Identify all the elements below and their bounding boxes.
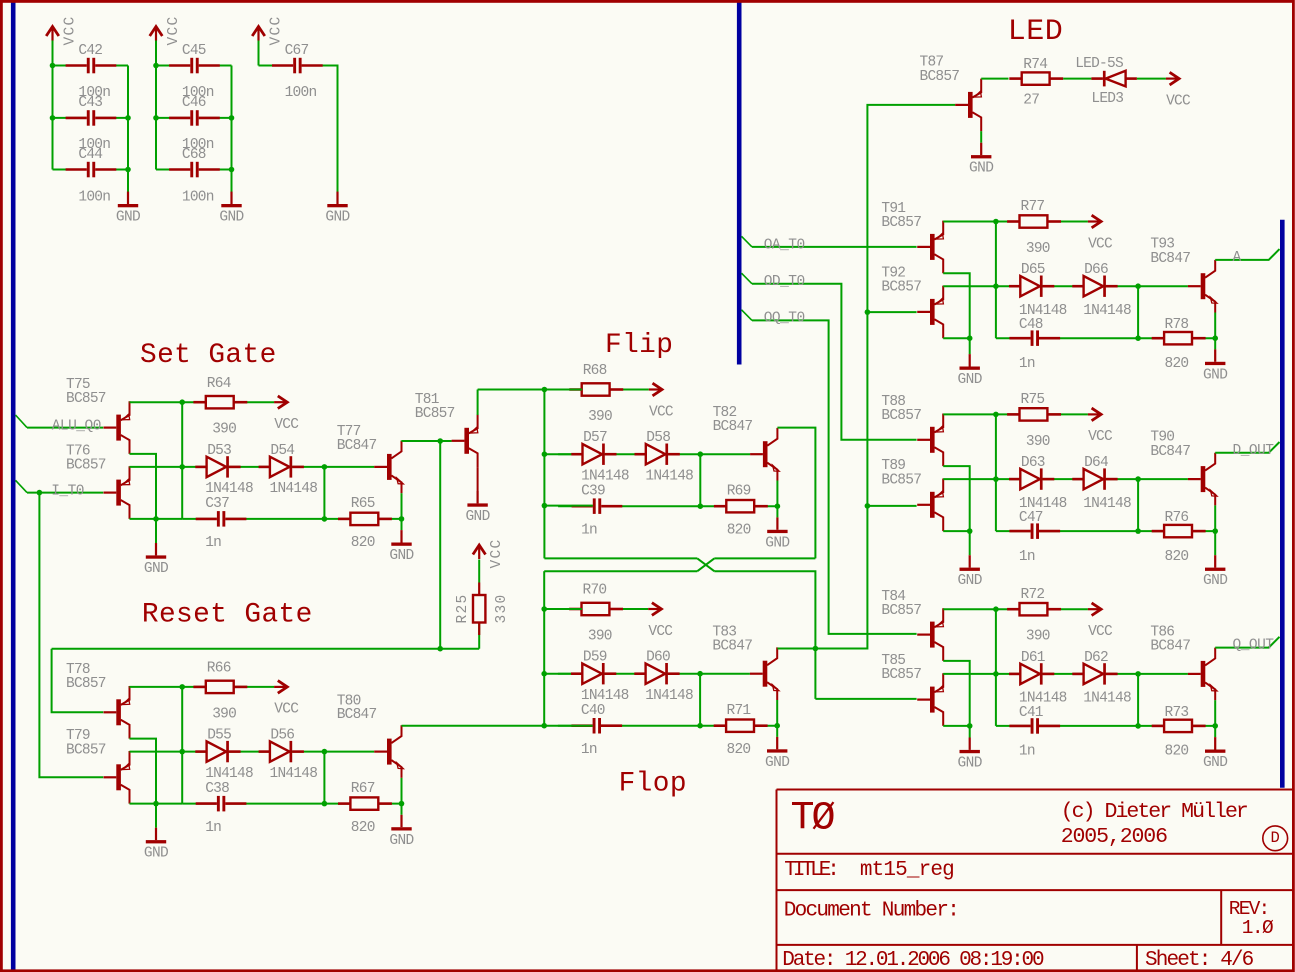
svg-text:1.Ø: 1.Ø [1242, 917, 1274, 939]
svg-text:C43: C43 [78, 95, 102, 111]
svg-text:BC847: BC847 [337, 438, 377, 454]
svg-text:R68: R68 [583, 363, 607, 379]
svg-text:BC857: BC857 [66, 742, 106, 758]
svg-text:390: 390 [1026, 241, 1050, 257]
svg-text:D58: D58 [646, 430, 670, 446]
svg-text:1N4148: 1N4148 [645, 469, 693, 485]
svg-text:820: 820 [1165, 744, 1189, 760]
svg-text:D65: D65 [1021, 262, 1045, 278]
svg-text:1N4148: 1N4148 [270, 481, 318, 497]
svg-text:Reset Gate: Reset Gate [142, 600, 313, 631]
svg-text:D62: D62 [1084, 650, 1108, 666]
svg-text:BC857: BC857 [881, 603, 921, 619]
svg-text:BC857: BC857 [415, 406, 455, 422]
svg-text:GND: GND [969, 161, 993, 177]
svg-text:VCC: VCC [1088, 429, 1113, 445]
svg-text:VCC: VCC [166, 15, 182, 45]
svg-text:D66: D66 [1084, 262, 1108, 278]
svg-text:GND: GND [958, 756, 982, 772]
svg-text:C46: C46 [182, 95, 206, 111]
svg-text:TØ: TØ [791, 797, 835, 842]
svg-text:D59: D59 [583, 650, 607, 666]
svg-text:BC847: BC847 [1150, 251, 1190, 267]
svg-text:LED-5S: LED-5S [1075, 56, 1123, 72]
svg-text:BC857: BC857 [881, 408, 921, 424]
svg-text:(c) Dieter Müller: (c) Dieter Müller [1061, 800, 1247, 824]
svg-text:D61: D61 [1021, 650, 1045, 666]
svg-text:mt15_reg: mt15_reg [860, 859, 954, 882]
svg-text:1n: 1n [1019, 356, 1035, 372]
svg-text:GND: GND [765, 535, 789, 551]
svg-text:VCC: VCC [1166, 93, 1191, 109]
svg-text:A: A [1233, 250, 1242, 266]
svg-text:D60: D60 [646, 650, 670, 666]
svg-text:GND: GND [219, 210, 243, 226]
svg-text:1n: 1n [205, 535, 221, 551]
svg-text:1N4148: 1N4148 [581, 469, 629, 485]
svg-text:390: 390 [588, 409, 612, 425]
svg-text:1N4148: 1N4148 [270, 766, 318, 782]
svg-text:GND: GND [465, 509, 489, 525]
svg-text:TITLE:: TITLE: [784, 859, 836, 882]
svg-text:820: 820 [727, 742, 751, 758]
svg-text:BC857: BC857 [66, 458, 106, 474]
svg-text:GND: GND [1203, 367, 1227, 383]
svg-text:D63: D63 [1021, 455, 1045, 471]
svg-text:390: 390 [212, 706, 236, 722]
svg-text:100n: 100n [78, 190, 110, 206]
svg-text:VCC: VCC [1088, 624, 1113, 640]
svg-text:GND: GND [389, 548, 413, 564]
svg-text:C48: C48 [1019, 317, 1043, 333]
svg-text:OA_T0: OA_T0 [764, 237, 805, 253]
svg-text:1N4148: 1N4148 [581, 688, 629, 704]
svg-text:C40: C40 [581, 703, 605, 719]
svg-text:VCC: VCC [1088, 236, 1113, 252]
svg-text:R65: R65 [351, 496, 375, 512]
svg-text:BC857: BC857 [66, 676, 106, 692]
svg-text:LED3: LED3 [1091, 91, 1123, 107]
svg-text:D53: D53 [207, 443, 231, 459]
svg-text:1N4148: 1N4148 [1083, 496, 1131, 512]
svg-text:VCC: VCC [274, 417, 299, 433]
svg-text:VCC: VCC [62, 15, 78, 45]
svg-text:GND: GND [958, 372, 982, 388]
svg-text:330: 330 [494, 593, 510, 623]
svg-text:1n: 1n [1019, 549, 1035, 565]
svg-text:GND: GND [1203, 755, 1227, 771]
svg-text:D56: D56 [270, 728, 294, 744]
svg-text:390: 390 [588, 628, 612, 644]
svg-text:GND: GND [389, 833, 413, 849]
svg-text:BC857: BC857 [881, 472, 921, 488]
svg-text:R64: R64 [207, 376, 231, 392]
svg-text:D_OUT: D_OUT [1233, 443, 1275, 459]
svg-text:I_T0: I_T0 [51, 484, 84, 500]
svg-text:1n: 1n [205, 820, 221, 836]
svg-text:1N4148: 1N4148 [1083, 691, 1131, 707]
svg-text:C45: C45 [182, 43, 206, 59]
svg-text:BC857: BC857 [881, 280, 921, 296]
svg-text:100n: 100n [285, 85, 317, 101]
svg-text:D: D [1271, 829, 1280, 847]
svg-text:VCC: VCC [649, 404, 674, 420]
svg-text:Sheet: 4/6: Sheet: 4/6 [1145, 949, 1254, 972]
svg-text:D54: D54 [270, 443, 294, 459]
svg-text:GND: GND [765, 755, 789, 771]
svg-text:1n: 1n [1019, 744, 1035, 760]
svg-text:820: 820 [351, 820, 375, 836]
svg-text:R72: R72 [1021, 587, 1045, 603]
svg-text:R70: R70 [583, 583, 607, 599]
svg-text:LED: LED [1008, 15, 1064, 49]
svg-text:GND: GND [1203, 573, 1227, 589]
svg-text:D57: D57 [583, 430, 607, 446]
svg-text:Q_OUT: Q_OUT [1233, 638, 1275, 654]
svg-text:Flop: Flop [619, 769, 687, 800]
svg-text:C42: C42 [78, 43, 102, 59]
svg-text:R78: R78 [1165, 317, 1189, 333]
svg-text:GND: GND [325, 210, 349, 226]
svg-text:R71: R71 [727, 703, 751, 719]
svg-text:C38: C38 [205, 781, 229, 797]
svg-text:GND: GND [958, 573, 982, 589]
svg-text:C41: C41 [1019, 705, 1043, 721]
svg-text:Flip: Flip [605, 330, 673, 361]
svg-text:390: 390 [212, 422, 236, 438]
svg-text:BC857: BC857 [920, 69, 960, 85]
svg-text:2005,2006: 2005,2006 [1061, 825, 1167, 849]
svg-text:R75: R75 [1021, 392, 1045, 408]
svg-text:VCC: VCC [489, 538, 505, 568]
svg-text:D55: D55 [207, 728, 231, 744]
svg-text:1n: 1n [581, 742, 597, 758]
svg-text:C67: C67 [285, 43, 309, 59]
svg-text:390: 390 [1026, 434, 1050, 450]
svg-text:OD_T0: OD_T0 [764, 274, 805, 290]
svg-text:ALU_Q0: ALU_Q0 [52, 419, 101, 435]
svg-text:BC847: BC847 [713, 419, 753, 435]
svg-text:100n: 100n [182, 190, 214, 206]
svg-text:Set Gate: Set Gate [140, 340, 277, 371]
svg-text:BC857: BC857 [881, 667, 921, 683]
svg-text:C68: C68 [182, 147, 206, 163]
svg-text:1N4148: 1N4148 [1083, 303, 1131, 319]
svg-text:R77: R77 [1021, 199, 1045, 215]
svg-text:BC857: BC857 [66, 391, 106, 407]
svg-text:BC857: BC857 [881, 215, 921, 231]
svg-text:R73: R73 [1165, 705, 1189, 721]
svg-text:D64: D64 [1084, 455, 1108, 471]
svg-text:VCC: VCC [268, 15, 284, 45]
svg-text:1N4148: 1N4148 [205, 766, 253, 782]
svg-text:820: 820 [1165, 549, 1189, 565]
svg-text:Date: 12.01.2006 08:19:00: Date: 12.01.2006 08:19:00 [782, 949, 1044, 972]
svg-text:1N4148: 1N4148 [205, 481, 253, 497]
svg-text:R69: R69 [727, 484, 751, 500]
svg-text:GND: GND [116, 210, 140, 226]
svg-text:BC847: BC847 [1150, 639, 1190, 655]
svg-text:C39: C39 [581, 484, 605, 500]
svg-text:GND: GND [144, 561, 168, 577]
svg-text:C44: C44 [78, 147, 102, 163]
svg-text:BC847: BC847 [712, 639, 752, 655]
svg-text:R76: R76 [1165, 510, 1189, 526]
svg-text:820: 820 [351, 535, 375, 551]
svg-text:820: 820 [1165, 356, 1189, 372]
svg-text:Document Number:: Document Number: [784, 900, 958, 923]
svg-text:VCC: VCC [274, 702, 299, 718]
svg-text:C47: C47 [1019, 510, 1043, 526]
svg-text:1n: 1n [581, 523, 597, 539]
svg-text:OQ_T0: OQ_T0 [764, 311, 805, 327]
svg-text:R66: R66 [207, 661, 231, 677]
svg-text:BC847: BC847 [337, 707, 377, 723]
svg-text:27: 27 [1023, 93, 1039, 109]
svg-text:1N4148: 1N4148 [645, 688, 693, 704]
svg-text:C37: C37 [205, 496, 229, 512]
svg-text:820: 820 [727, 523, 751, 539]
svg-text:R25: R25 [455, 593, 471, 623]
svg-text:VCC: VCC [648, 624, 673, 640]
svg-text:390: 390 [1026, 629, 1050, 645]
svg-text:R74: R74 [1023, 57, 1047, 73]
svg-text:GND: GND [144, 846, 168, 862]
svg-text:BC847: BC847 [1150, 444, 1190, 460]
svg-text:R67: R67 [351, 781, 375, 797]
